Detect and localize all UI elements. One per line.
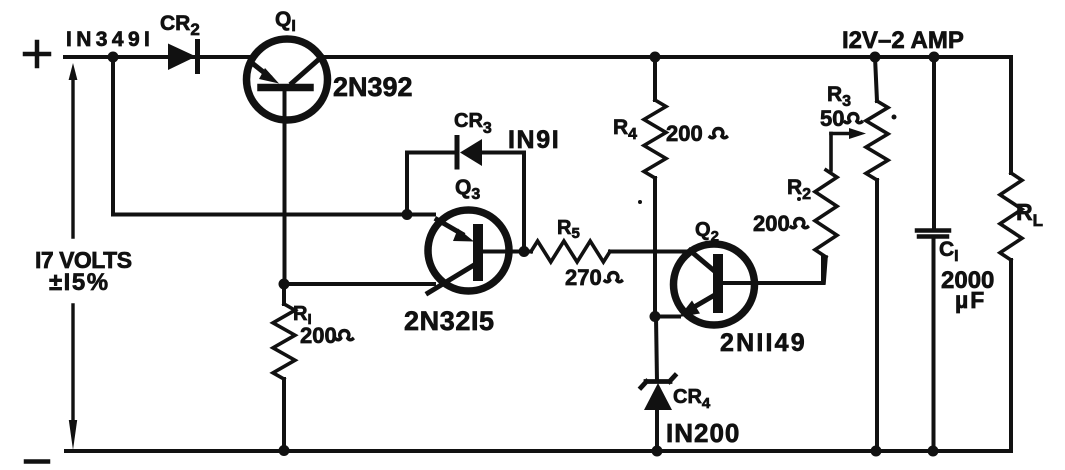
svg-text:Q3: Q3: [455, 176, 480, 203]
svg-text:±I5%: ±I5%: [49, 269, 110, 296]
svg-text:QI: QI: [275, 8, 296, 35]
stray dot: [892, 115, 897, 120]
node CR4 bottom: [652, 446, 663, 457]
svg-text:CR3: CR3: [454, 110, 492, 137]
svg-text:270: 270: [565, 265, 602, 290]
svg-text:200: 200: [753, 211, 790, 236]
resistor R4: [653, 57, 657, 316]
wire input node down: [111, 57, 115, 215]
wire node to Q3 collector: [284, 282, 434, 286]
resistor R3 (rheostat): [875, 57, 877, 451]
node CR3 left junction: [402, 209, 413, 220]
svg-text:50: 50: [820, 106, 844, 131]
node Q3 base / R5: [519, 246, 530, 257]
resistor R5: [531, 241, 610, 262]
node R1 bottom: [279, 445, 290, 456]
svg-text:IN9I: IN9I: [508, 126, 560, 154]
wire top rail right: [322, 55, 1011, 59]
svg-text:2NII49: 2NII49: [720, 329, 807, 357]
capacitor C1: [932, 57, 936, 230]
wire Q1 base down: [283, 88, 287, 284]
svg-text:CR4: CR4: [673, 386, 711, 412]
transistor Q2: [674, 244, 824, 325]
wire top rail left: [65, 55, 250, 59]
wire to zener CR4: [656, 317, 657, 382]
diode CR3: [457, 138, 482, 168]
wire CR3 loop left: [407, 153, 456, 215]
wire CR4 to ground rail: [655, 409, 659, 451]
svg-text:IN349I: IN349I: [66, 28, 154, 51]
wire bottom rail: [66, 449, 1011, 453]
svg-text:µF: µF: [955, 287, 986, 313]
svg-text:IN200: IN200: [666, 418, 740, 448]
svg-text:CI: CI: [939, 238, 959, 265]
terminal + (input positive): [25, 42, 49, 66]
R3 wiper arrow: [831, 132, 852, 136]
node Q1 base / R1 / Q3 collector: [279, 279, 290, 290]
resistor R1: [273, 304, 295, 379]
wire to Q3 emitter row: [113, 213, 434, 217]
svg-text:R5: R5: [557, 217, 580, 242]
transistor Q1: [247, 39, 328, 120]
svg-text:200: 200: [300, 323, 337, 348]
diode CR2: [168, 42, 198, 72]
stray dot: [638, 200, 642, 204]
node R3 top: [870, 52, 881, 63]
svg-text:CR2: CR2: [160, 12, 200, 39]
node A (input junction): [108, 52, 119, 63]
node C1 bottom: [928, 446, 939, 457]
wire wiper to R2: [829, 134, 833, 171]
node C1 top: [929, 52, 940, 63]
svg-text:R4: R4: [613, 116, 637, 143]
resistor R2: [815, 170, 837, 257]
measure arrow 17 volts: [69, 63, 78, 450]
transistor Q3: [428, 210, 524, 293]
stray dot: [797, 197, 801, 201]
node R4 top: [650, 52, 661, 63]
node Q2 emitter / CR4: [650, 311, 661, 322]
svg-text:2N392: 2N392: [333, 72, 413, 102]
svg-text:2N32I5: 2N32I5: [404, 306, 495, 336]
wire CR3 loop right: [481, 153, 524, 252]
svg-text:I2V–2 AMP: I2V–2 AMP: [842, 27, 964, 54]
zener CR4: [641, 376, 675, 411]
node R3 bottom: [871, 446, 882, 457]
svg-text:RL: RL: [1016, 199, 1043, 230]
svg-text:200: 200: [666, 121, 703, 146]
wire node to Q2 emitter: [655, 315, 679, 319]
resistor RL (load): [1009, 57, 1013, 451]
terminal - (input negative): [26, 459, 48, 464]
